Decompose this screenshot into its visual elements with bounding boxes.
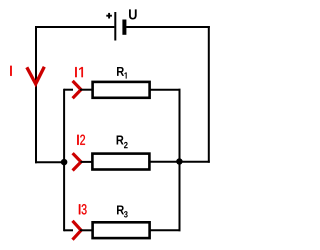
battery U negative plate (short thick)	[122, 20, 126, 35]
wire R3 branch right	[150, 229, 181, 231]
label I1 (red)	[75, 67, 83, 77]
node A junction dot left	[61, 159, 68, 166]
wire R2 branch right	[150, 161, 180, 163]
wire right horizontal connector from node B to right rail	[180, 161, 210, 163]
arrow I2 chevron	[73, 153, 81, 170]
label R3	[117, 205, 128, 217]
wire R1 branch right	[150, 89, 181, 91]
label R1	[117, 67, 127, 79]
wire R3 branch left segment before arrow	[64, 229, 73, 231]
wire R1 branch left segment before arrow	[64, 89, 73, 91]
battery U positive plate (long thin)	[114, 12, 116, 41]
wire R3 branch left segment after arrow	[80, 229, 93, 231]
label I2 (red)	[77, 135, 85, 145]
arrow I down chevron on left rail	[27, 67, 45, 84]
wire left rail	[35, 26, 37, 163]
wire R1 branch left segment after arrow	[80, 89, 93, 91]
wire right rail	[208, 26, 210, 163]
resistor R1 box	[93, 82, 150, 98]
node B junction dot right	[176, 158, 183, 165]
wire top-left from rail to battery + plate	[35, 26, 114, 28]
label I (total current, red)	[10, 66, 11, 76]
wire left horizontal connector to node A	[35, 161, 64, 163]
label I3 (red)	[79, 204, 87, 214]
wire right vertical connector R1-R3	[179, 89, 181, 232]
wire left vertical connector R1-R3	[63, 89, 65, 232]
label U (source voltage)	[129, 9, 137, 19]
resistor R2 box	[92, 154, 149, 170]
battery plus sign	[106, 13, 112, 19]
label R2	[117, 136, 128, 149]
arrow I1 chevron	[73, 81, 81, 98]
arrow I3 chevron	[73, 221, 82, 240]
wire R2 branch left stub after arrow	[81, 161, 94, 163]
resistor R3 box	[93, 222, 150, 238]
wire top-right from battery - plate to right rail	[126, 26, 210, 28]
